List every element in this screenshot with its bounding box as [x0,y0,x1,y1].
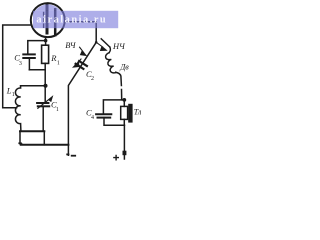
tube grid dashes left [43,13,45,29]
capacitor C2 plate A [79,61,87,66]
wire tank bottom rail [20,130,44,132]
telephone Tl top lead [123,100,125,107]
wire top rail of C4/Tl block [103,100,124,114]
label C1 [51,99,59,113]
arrow trimmer head of C2 [73,59,81,67]
svg-text:ВЧ: ВЧ [65,41,77,50]
svg-text:Дв: Дв [119,62,129,71]
telephone Tl case rectangle [121,106,128,119]
arrow C1 variable [38,97,53,109]
capacitor C4 bottom plate [98,117,111,119]
wire minus bus [21,144,69,146]
label C3 [14,53,22,67]
inductor L1 (four left humps) [15,86,20,131]
telephone Tl diaphragm bar [128,104,132,123]
vacuum tube L (envelope circle) [31,3,65,37]
node dot tank top [44,84,48,88]
label + [114,155,118,159]
wire left rung to bus [20,131,22,144]
tick bus left foot [18,142,21,144]
svg-text:4: 4 [91,115,94,121]
terminal tick plus [123,151,127,156]
wire plus terminal lead [123,125,125,159]
wire anode: tube right pin to switch node [65,22,96,43]
label C4 [86,107,94,120]
label L1 [6,85,15,98]
capacitor C1 bottom plate [38,105,49,107]
resistor R1 body [42,45,49,63]
wire contact to Dv coil [109,47,110,53]
label minus [72,155,76,157]
label R1 [50,53,60,67]
wire C1 bottom lead [42,106,44,131]
svg-text:2: 2 [91,76,94,82]
wire Tl bottom lead [123,119,125,125]
svg-text:1: 1 [57,61,60,67]
wire grid-left: tube left pin, left column and tap to coil [3,25,32,108]
capacitor C4 top plate [96,113,111,115]
terminal tick minus [66,154,69,156]
capacitor C2 plate B [76,64,84,69]
wire R1 bottom lead and block bottom rail [29,63,45,69]
wire right rung to bus [43,131,45,145]
inductor Dv (coil, three left humps drifting right) [105,53,116,74]
node dot grid junction [44,39,48,43]
capacitor C3 bottom plate [23,57,35,59]
svg-text:1: 1 [12,92,15,98]
arrow VCh position [80,47,86,55]
svg-text:Тл: Тл [134,108,142,117]
arrow NCh position (blade) [96,42,106,50]
wire C4 bottom lead and bottom rail [104,118,124,126]
svg-text:airalania.ru: airalania.ru [36,15,107,26]
capacitor C1 top lead [44,86,46,103]
wire C3 bottom lead [28,58,30,70]
svg-text:НЧ: НЧ [112,42,126,51]
capacitor C3 top plate [23,53,35,55]
wire VCh branch: node diagonally through C2 down to minus bus [68,42,96,155]
node switch pivot [95,41,98,44]
node dot at Tl top [122,98,126,102]
watermark band [33,11,118,28]
tube anode bar right [54,9,57,35]
svg-text:1: 1 [56,107,59,113]
wire tube cathode stub [45,37,47,45]
capacitor C1 top plate [37,102,48,104]
label C2 [86,69,94,82]
wire Dv hook to tail [116,72,122,100]
wire NCh contact stub [101,39,110,47]
wire hook to C3 [28,41,46,54]
wire block to tank top [44,70,46,86]
tube electrode bar 1 (central column) [46,5,49,33]
wire tank top rail [21,85,46,87]
svg-text:3: 3 [19,61,22,67]
